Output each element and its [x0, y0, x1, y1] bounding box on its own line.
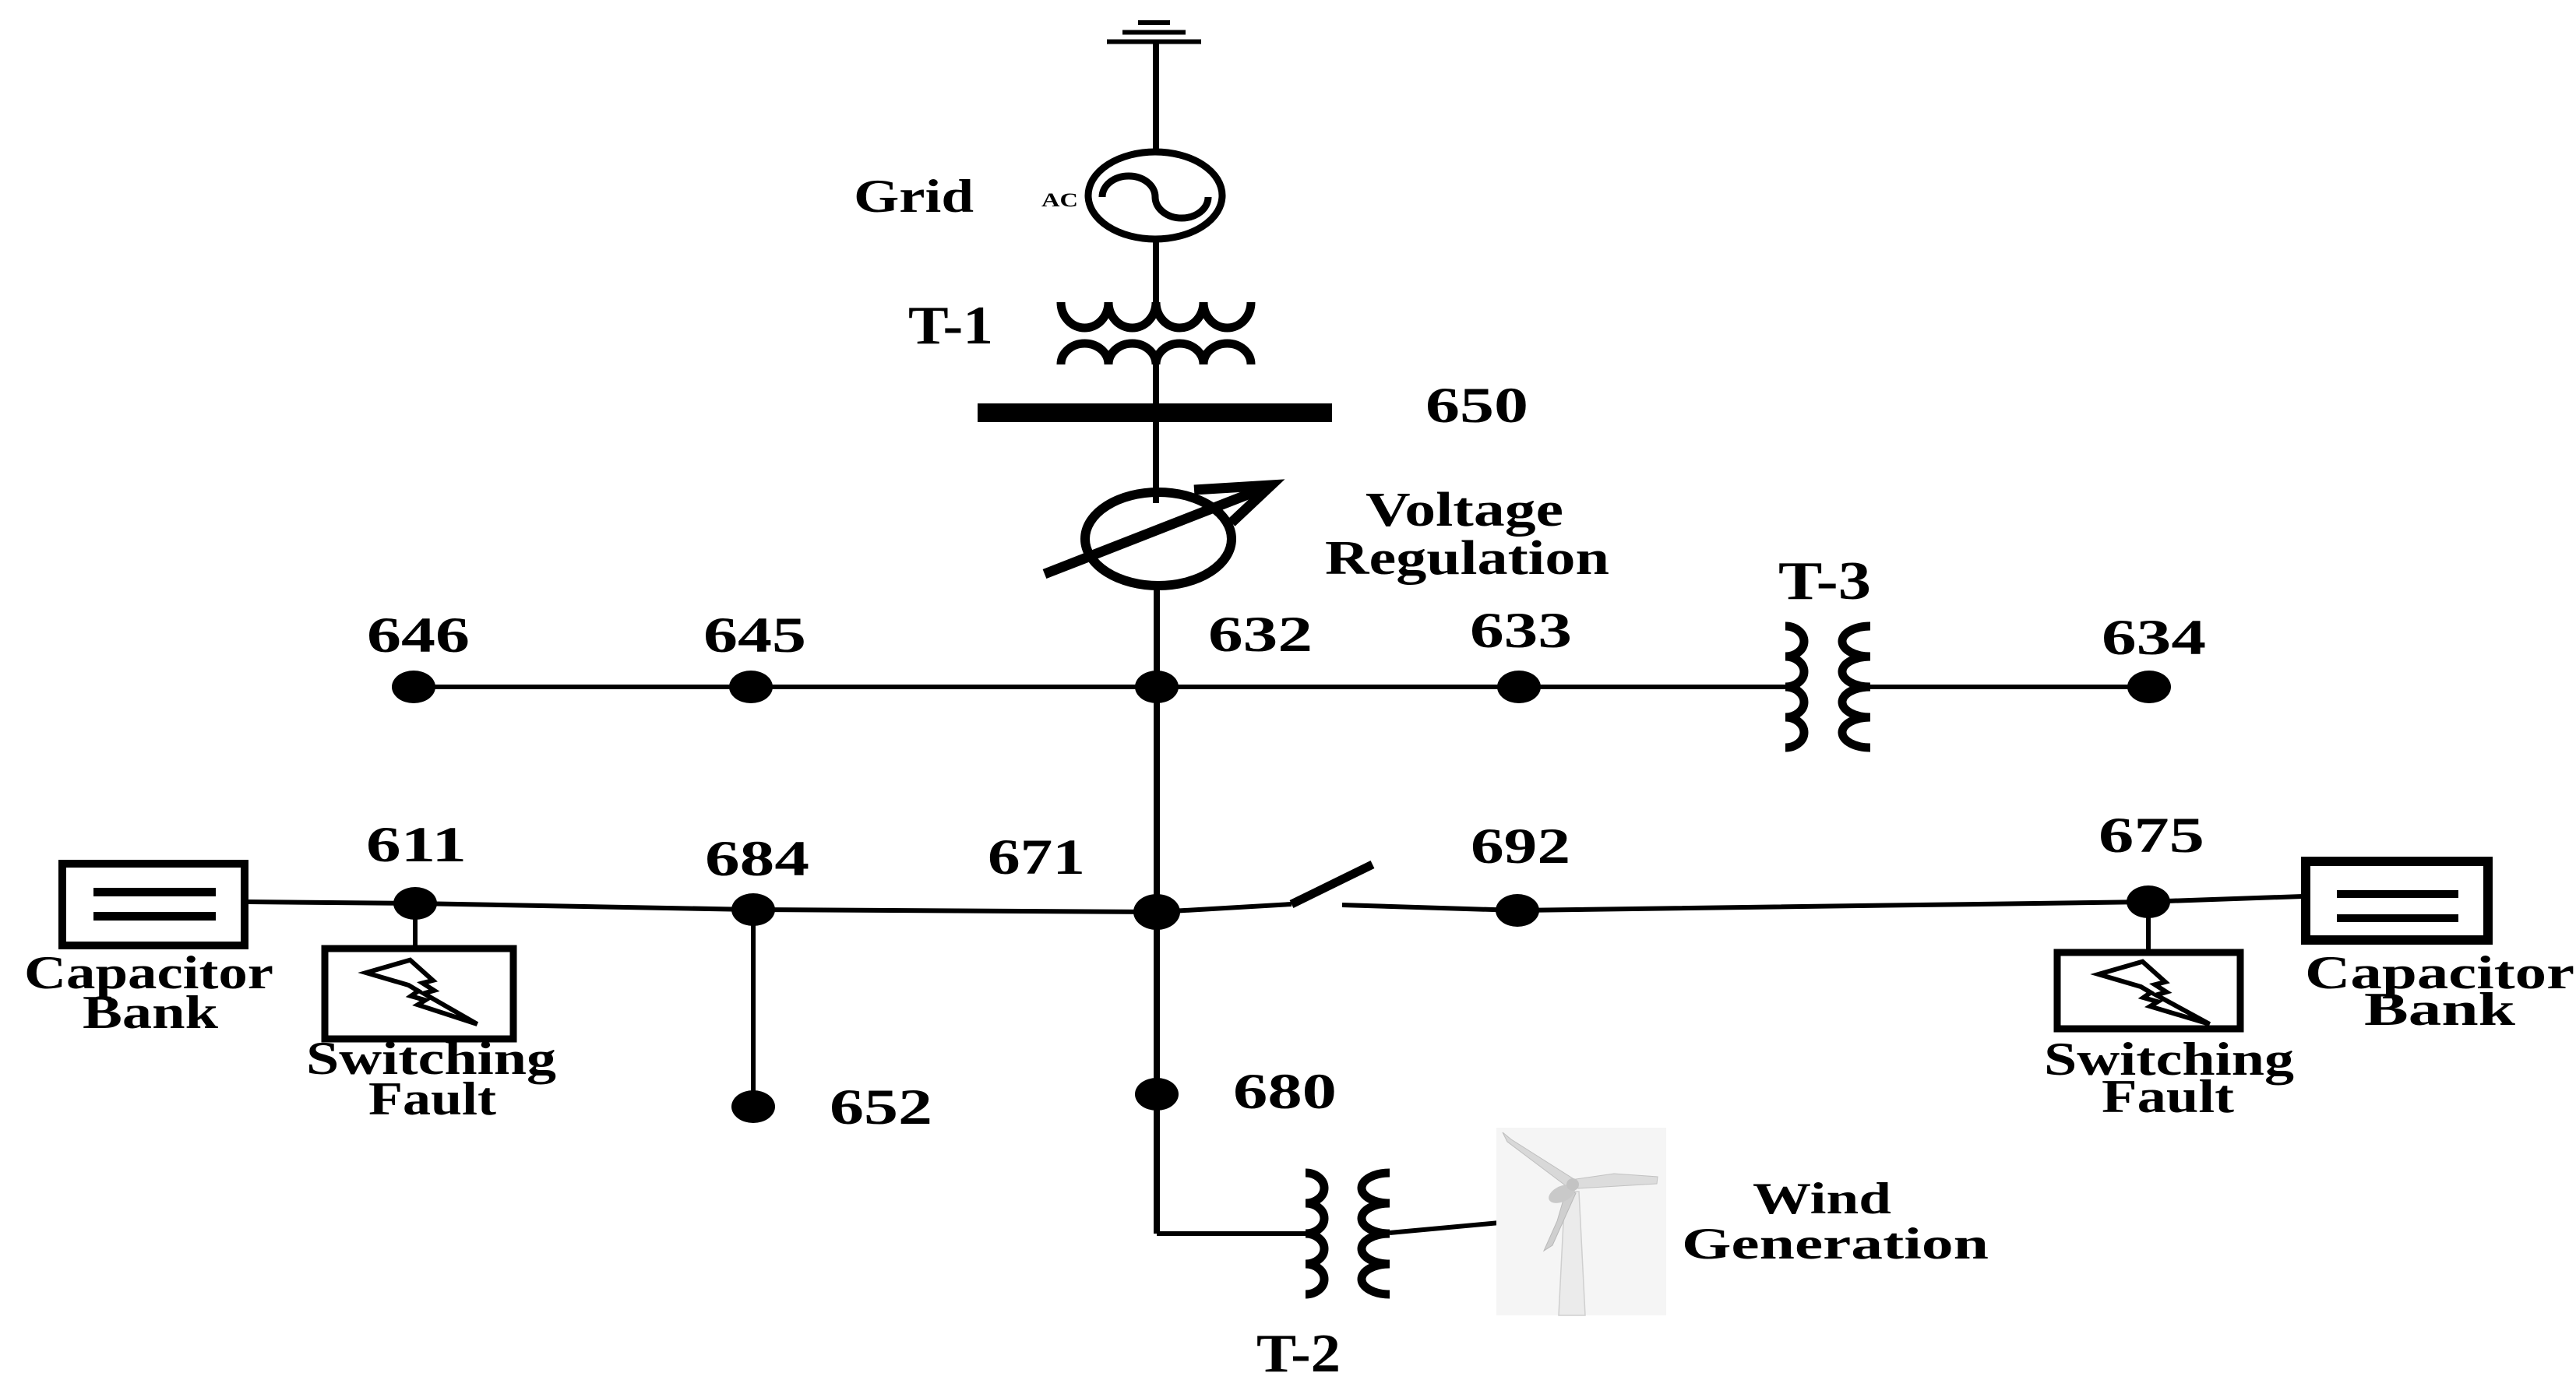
svg-text:Fault: Fault: [368, 1073, 496, 1125]
svg-text:Voltage: Voltage: [1366, 484, 1563, 537]
svg-text:671: 671: [988, 829, 1085, 885]
svg-text:T-1: T-1: [908, 296, 993, 356]
svg-text:Bank: Bank: [2364, 984, 2516, 1035]
svg-text:633: 633: [1470, 603, 1572, 659]
svg-text:634: 634: [2102, 610, 2206, 666]
svg-text:T-3: T-3: [1778, 551, 1871, 611]
svg-text:684: 684: [705, 831, 809, 887]
svg-text:645: 645: [703, 607, 806, 664]
svg-text:652: 652: [830, 1079, 932, 1135]
svg-text:680: 680: [1233, 1064, 1337, 1120]
svg-text:Regulation: Regulation: [1325, 532, 1609, 585]
svg-text:Grid: Grid: [854, 171, 974, 222]
svg-text:Bank: Bank: [83, 987, 219, 1038]
svg-text:675: 675: [2099, 808, 2204, 864]
svg-text:646: 646: [367, 607, 470, 664]
svg-text:692: 692: [1471, 819, 1570, 875]
svg-text:632: 632: [1208, 607, 1313, 663]
svg-text:AC: AC: [1041, 190, 1078, 211]
svg-text:T-2: T-2: [1256, 1324, 1341, 1373]
svg-text:Fault: Fault: [2102, 1071, 2234, 1122]
svg-text:Generation: Generation: [1682, 1220, 1989, 1269]
svg-text:650: 650: [1425, 378, 1528, 434]
svg-text:611: 611: [366, 817, 467, 873]
svg-text:Wind: Wind: [1753, 1174, 1891, 1223]
